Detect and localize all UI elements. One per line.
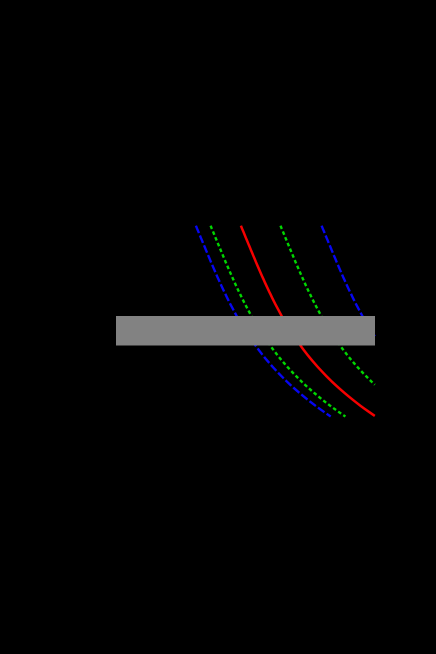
blue dashed curve (leftmost, -2sigma) xyxy=(196,226,331,417)
green dashed curve (-1sigma) xyxy=(211,226,346,417)
red solid central curve xyxy=(241,226,375,416)
blue dashed curve (rightmost, +2sigma) xyxy=(322,226,375,337)
green dashed curve (+1sigma) xyxy=(281,226,375,385)
gray horizontal band (drawn over curves) xyxy=(116,316,375,346)
